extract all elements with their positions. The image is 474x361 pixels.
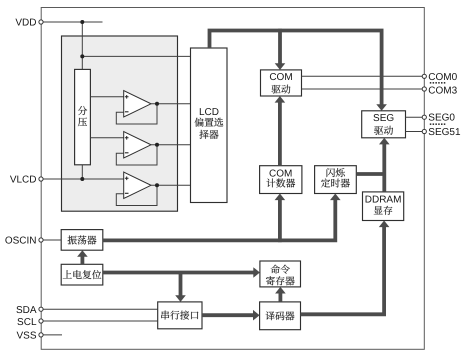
- arrowhead into serial interface top: [175, 295, 186, 302]
- wire buffer 1 output: [151, 103, 191, 105]
- wire OSCIN lead: [41, 239, 61, 241]
- svg-text:COM0: COM0: [428, 72, 457, 83]
- svg-text:VSS: VSS: [16, 331, 36, 342]
- LCD bias selector block: [191, 48, 228, 203]
- svg-text:LCD: LCD: [199, 107, 219, 118]
- buffer op-amp 2: [124, 132, 151, 158]
- terminal VSS: [39, 333, 43, 337]
- svg-text:COM: COM: [269, 72, 292, 83]
- wire divider tap to buffer1: [90, 96, 124, 98]
- wire VLCD rail: [41, 178, 124, 180]
- wire buffer 2 output: [151, 144, 191, 146]
- bus power-on reset to command register: [103, 271, 257, 275]
- arrowhead into decoder left: [253, 310, 260, 321]
- node buffer 1 output junction: [155, 102, 159, 106]
- svg-text:COM3: COM3: [428, 86, 457, 97]
- buffer op-amp 1: [124, 91, 151, 117]
- svg-text:VLCD: VLCD: [10, 174, 37, 185]
- bus DDRAM to SEG driver: [382, 141, 386, 192]
- label 寄存器: [266, 276, 275, 285]
- node buffer 2 output junction: [155, 143, 159, 147]
- command register block: [260, 261, 301, 287]
- node VLCD junction: [80, 177, 84, 181]
- arrowhead into COM driver top: [275, 63, 286, 70]
- wire COM0 line: [302, 75, 425, 77]
- label COM driver 驱动: [272, 85, 281, 94]
- label SEG driver 驱动: [374, 126, 383, 135]
- node buffer 3 output junction: [155, 183, 159, 187]
- arrowhead into command register left: [253, 267, 260, 278]
- bus COM counter to COM driver: [278, 100, 282, 166]
- DDRAM display memory block: [363, 192, 404, 221]
- arrowhead into DDRAM bottom: [379, 221, 390, 228]
- arrowhead into SEG driver top: [376, 104, 387, 111]
- wire buffer 3 output: [151, 184, 191, 186]
- wire SEG51 line: [406, 131, 425, 133]
- bus clock branch to COM counter: [278, 197, 282, 242]
- node VDD junction: [80, 20, 84, 24]
- terminal SEG51: [422, 129, 426, 133]
- wire VDD to bias selector: [82, 55, 190, 57]
- terminal SEG0: [422, 115, 426, 119]
- terminal COM0: [422, 74, 426, 78]
- terminal VLCD: [39, 177, 43, 181]
- bus reset branch to serial interface: [179, 273, 183, 299]
- svg-text:SCL: SCL: [17, 317, 37, 328]
- label 择器: [199, 130, 208, 139]
- wire divider tap to buffer2: [90, 137, 124, 139]
- chip outer boundary: [41, 8, 424, 350]
- arrowhead into SEG driver bottom: [379, 138, 390, 145]
- voltage divider block 分压: [75, 69, 91, 164]
- arrowhead into COM counter bottom: [275, 194, 286, 201]
- decoder block: [260, 302, 301, 330]
- label 计数器: [266, 179, 275, 188]
- label 上电复位: [63, 270, 72, 278]
- terminal OSCIN: [39, 238, 43, 242]
- arrowhead into COM driver bottom: [275, 96, 286, 103]
- label 分压: [78, 106, 87, 115]
- svg-text:SDA: SDA: [16, 305, 37, 316]
- buffer 2 feedback loop: [116, 145, 157, 165]
- buffer 1 feedback loop: [116, 104, 157, 124]
- bus decoder to command register: [278, 290, 282, 302]
- svg-text:OSCIN: OSCIN: [5, 235, 37, 246]
- terminal SCL: [39, 319, 43, 323]
- wire SEG0 line: [406, 116, 425, 118]
- oscillator block: [61, 230, 103, 251]
- svg-text:DDRAM: DDRAM: [365, 195, 402, 206]
- label 振荡器: [68, 235, 77, 244]
- wire divider bottom to VLCD rail: [81, 165, 83, 179]
- terminal VDD: [39, 20, 43, 24]
- blink timer block: [315, 166, 357, 194]
- buffer 3 feedback loop: [116, 185, 157, 205]
- label 显存: [374, 206, 383, 214]
- wire VDD rail: [41, 21, 103, 23]
- svg-text:SEG0: SEG0: [428, 113, 455, 124]
- power-on reset block: [61, 264, 103, 285]
- arrowhead into blink timer bottom: [330, 194, 341, 201]
- node VDD-bias junction: [80, 54, 84, 58]
- ellipsis COM0-COM3: [430, 82, 446, 84]
- svg-text:COM: COM: [269, 168, 292, 179]
- bus branch into COM driver: [278, 29, 282, 66]
- bus blink timer to SEG feed: [356, 172, 384, 176]
- bus serial interface to decoder: [202, 313, 256, 317]
- ellipsis SEG0-SEG51: [430, 123, 446, 125]
- wire SCL lead: [41, 320, 158, 322]
- svg-text:SEG: SEG: [373, 113, 394, 124]
- bus power-on reset to oscillator: [81, 253, 85, 264]
- buffer op-amp 3: [124, 172, 151, 198]
- arrowhead into oscillator bottom: [77, 250, 88, 257]
- wire VDD drop to divider: [81, 22, 83, 69]
- serial interface block: [158, 302, 202, 329]
- bus oscillator clock: [103, 197, 335, 240]
- terminal SDA: [39, 307, 43, 311]
- bus decoder to DDRAM: [301, 224, 385, 314]
- COM driver block: [261, 70, 302, 96]
- svg-text:SEG51: SEG51: [428, 127, 461, 138]
- label 译码器: [266, 311, 275, 320]
- COM counter block: [260, 166, 302, 194]
- terminal COM3: [422, 87, 426, 91]
- label 定时器: [321, 178, 330, 187]
- label 串行接口: [161, 311, 169, 320]
- wire SDA lead: [41, 308, 158, 310]
- wire COM3 line: [302, 88, 425, 90]
- label 偏置选: [195, 118, 204, 127]
- label 闪烁: [327, 168, 335, 177]
- bias generator shaded block: [62, 36, 178, 211]
- bus bias selector to drivers: [210, 31, 382, 108]
- label 命令: [271, 265, 280, 274]
- svg-text:VDD: VDD: [15, 18, 36, 29]
- wire VSS stub: [41, 334, 62, 336]
- SEG driver block: [362, 111, 406, 138]
- arrowhead into command register bottom: [275, 287, 286, 294]
